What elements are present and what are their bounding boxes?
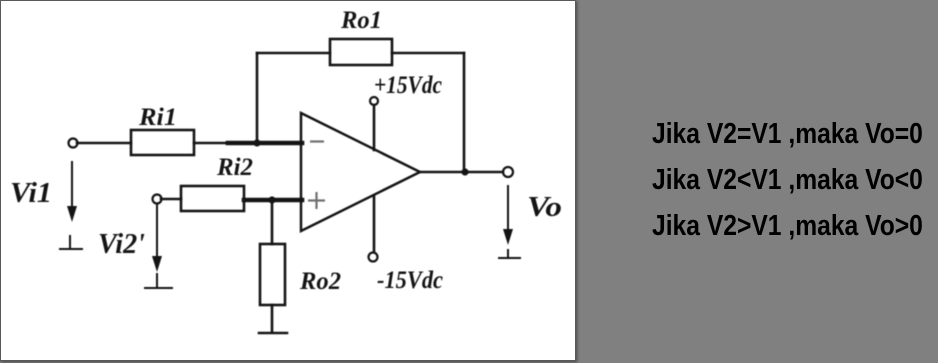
wire input1 to Ri1 — [77, 142, 131, 145]
arrow Vo — [507, 186, 509, 232]
svg-text:+15Vdc: +15Vdc — [374, 72, 442, 99]
terminal +15Vdc — [370, 97, 378, 105]
junction node output — [461, 168, 468, 175]
wire +15V supply — [373, 105, 376, 150]
svg-text:Ro1: Ro1 — [340, 7, 382, 34]
terminal output Vo — [503, 167, 513, 177]
svg-text:Ri1: Ri1 — [138, 104, 177, 131]
arrow Vi2 — [156, 204, 158, 258]
wire Ri1 to inverting input — [194, 142, 230, 145]
caption line 2 — [652, 166, 923, 195]
arrow Vi1 — [71, 162, 73, 208]
junction node non-inverting / Ro2 — [268, 196, 275, 203]
wire feedback left vertical — [256, 53, 259, 143]
wire feedback top left segment — [257, 52, 330, 55]
resistor Ri1 — [131, 130, 194, 155]
ground Vo — [507, 250, 509, 258]
ground Vi2 — [156, 274, 158, 287]
wire feedback top right segment — [392, 52, 464, 55]
wire feedback right vertical — [463, 53, 466, 172]
caption line 3 — [652, 212, 923, 241]
junction node inverting input — [253, 139, 260, 146]
wire output — [420, 171, 503, 174]
svg-text:-15Vdc: -15Vdc — [377, 267, 443, 294]
svg-text:Vi1: Vi1 — [10, 177, 52, 209]
resistor Ri2 — [181, 186, 244, 211]
arrowhead Vi1 — [67, 206, 77, 222]
resistor Ro2 — [260, 244, 285, 305]
op-amp plus symbol — [308, 199, 325, 201]
wire -15V supply — [373, 196, 376, 252]
arrowhead Vo — [503, 229, 513, 245]
resistor Ro1 — [330, 39, 392, 65]
wire node to Ro2 — [271, 200, 274, 244]
terminal -15Vdc — [369, 253, 378, 262]
op-amp minus symbol — [310, 140, 324, 142]
ground below Ro2 — [259, 332, 287, 335]
op-amp U1 — [301, 113, 420, 231]
white schematic panel — [0, 0, 576, 361]
wire input2 to Ri2 — [161, 198, 181, 201]
ground Vi1 — [69, 236, 71, 248]
svg-text:Vi2': Vi2' — [98, 228, 145, 260]
terminal input Vi1 — [69, 139, 78, 148]
terminal input Vi2 — [153, 195, 162, 204]
svg-text:Ro2: Ro2 — [299, 268, 341, 295]
svg-text:Vo: Vo — [527, 191, 562, 223]
svg-text:Ri2: Ri2 — [216, 154, 253, 181]
arrowhead Vi2 — [152, 256, 162, 272]
caption line 1 — [652, 120, 923, 149]
wire Ri2 to non-inverting input — [244, 198, 302, 203]
wire Ro2 to ground — [271, 305, 274, 332]
